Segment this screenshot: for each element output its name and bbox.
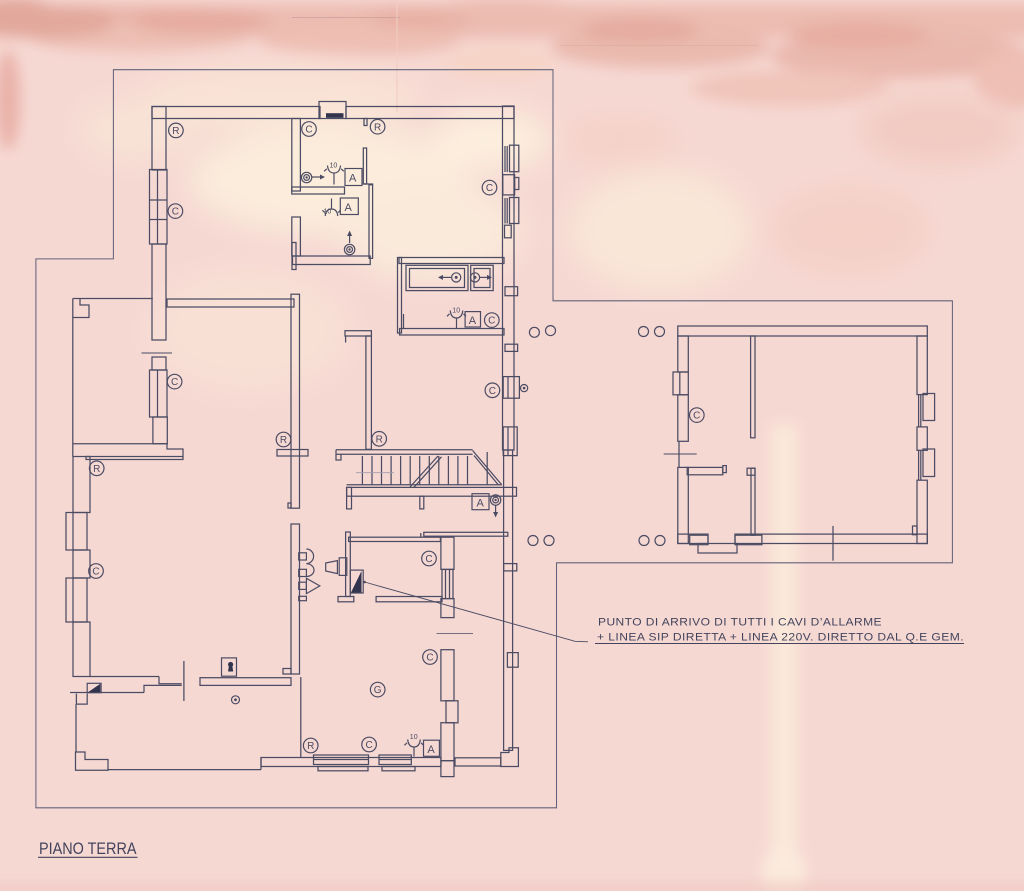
svg-text:+ LINEA SIP DIRETTA + LINEA 22: + LINEA SIP DIRETTA + LINEA 220V. DIRETT… bbox=[597, 632, 964, 644]
svg-text:C: C bbox=[425, 554, 432, 565]
svg-text:R: R bbox=[307, 741, 314, 752]
svg-text:R: R bbox=[376, 434, 383, 445]
svg-text:A: A bbox=[427, 744, 435, 756]
svg-text:C: C bbox=[693, 411, 700, 422]
svg-text:C: C bbox=[92, 567, 99, 578]
svg-text:C: C bbox=[365, 740, 372, 751]
svg-text:R: R bbox=[172, 126, 179, 137]
svg-text:R: R bbox=[93, 464, 100, 475]
svg-text:A: A bbox=[477, 498, 485, 510]
svg-text:A: A bbox=[345, 202, 353, 214]
svg-text:R: R bbox=[280, 435, 287, 446]
svg-text:C: C bbox=[488, 316, 495, 327]
svg-text:C: C bbox=[489, 386, 496, 397]
svg-text:G: G bbox=[374, 685, 382, 696]
svg-text:10: 10 bbox=[330, 163, 338, 170]
svg-text:A: A bbox=[349, 173, 357, 185]
svg-text:10: 10 bbox=[410, 734, 418, 741]
svg-text:PUNTO DI ARRIVO DI TUTTI I CAV: PUNTO DI ARRIVO DI TUTTI I CAVI D’ALLARM… bbox=[598, 617, 882, 629]
svg-text:10: 10 bbox=[452, 308, 460, 315]
svg-text:C: C bbox=[171, 377, 178, 388]
svg-text:C: C bbox=[486, 183, 493, 194]
svg-text:C: C bbox=[305, 125, 312, 136]
svg-text:C: C bbox=[172, 207, 179, 218]
svg-text:PIANO TERRA: PIANO TERRA bbox=[39, 840, 137, 858]
svg-text:A: A bbox=[469, 315, 477, 327]
svg-text:C: C bbox=[426, 653, 433, 664]
svg-text:R: R bbox=[374, 122, 381, 133]
